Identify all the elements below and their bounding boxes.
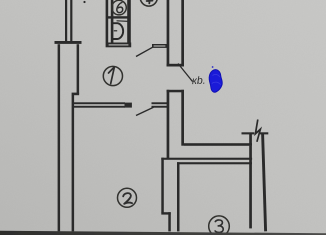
wall: WC room left wall outer line — [106, 0, 109, 43]
wall: top-left thin wall left line — [65, 0, 67, 42]
digit 4 bottom — [147, 0, 153, 3]
wall: horizontal wall to balcony break — [184, 143, 252, 146]
speck — [83, 1, 85, 3]
blue ink blob over apartment number — [209, 66, 222, 92]
wall: upper-right wall right line — [181, 0, 184, 67]
wall: room3 left inner line — [177, 162, 180, 231]
wall: upper-right wall left line — [167, 0, 170, 67]
wall: left exterior wall outer line — [58, 44, 61, 231]
digit 6 — [117, 2, 123, 12]
room label circle 1 — [103, 66, 122, 85]
wall: room3 top wall inner line — [177, 162, 252, 164]
wall: break top line left part — [242, 132, 255, 134]
photo edge dark band bottom — [0, 231, 326, 235]
wall: divider merged end block — [125, 103, 132, 108]
step line under circle 6 — [117, 20, 129, 23]
wall turn-up stub near break — [249, 133, 252, 146]
light core of upper door stub — [154, 45, 166, 46]
wall: room3 left outer line upper — [161, 158, 164, 213]
wall: right exterior wall outer line — [263, 134, 266, 232]
wall: left exterior wall inner line upper — [77, 44, 80, 94]
wall stub right of middle door bottom line — [152, 106, 168, 108]
room label circle 2 — [118, 188, 137, 207]
wall pier cap top-left — [55, 41, 82, 44]
digit 1 — [109, 67, 115, 84]
wall: break top line right part — [260, 132, 268, 134]
room label circle 3 — [209, 216, 230, 237]
toilet bowl — [112, 23, 123, 39]
door leaf middle (room1 to room2) — [136, 107, 154, 115]
wall: WC room left wall inner line — [111, 0, 114, 43]
wall: room1/room2 divider bottom line — [74, 106, 126, 108]
wall: upper-right wall bottom cap — [167, 64, 184, 67]
light core of WC bottom bar — [109, 44, 129, 45]
wall: right pier right line — [181, 90, 184, 146]
wall: left exterior wall inner line lower — [72, 95, 75, 231]
wall: room3 inner right line — [249, 146, 252, 229]
wall: room3 top wall outer line — [161, 158, 252, 160]
door leaf upper (room1 to room4) — [136, 47, 153, 56]
wall: right pier top cap — [167, 90, 184, 93]
wall: top-left thin wall right line — [70, 0, 72, 42]
svg-text:кb.: кb. — [192, 75, 206, 87]
wall stub right of upper door — [152, 44, 167, 48]
wall: WC room bottom bar — [106, 43, 132, 48]
wall: room1/room2 divider top line — [74, 102, 126, 104]
wall jog — [72, 93, 80, 96]
wall jog lower — [161, 212, 170, 214]
wall: WC room divider line — [107, 16, 130, 18]
wall: right pier left line — [167, 90, 170, 160]
wall: WC room right wall — [127, 0, 131, 43]
digit 3 — [215, 220, 223, 232]
room label circle 6 — [112, 0, 127, 15]
pointer line to apartment number — [178, 64, 193, 82]
break symbol zigzag — [255, 120, 260, 142]
digit 2 — [123, 193, 132, 204]
wall: room3 left outer line lower — [168, 212, 171, 231]
room label circle 4 — [140, 0, 157, 6]
toilet tick — [114, 30, 117, 32]
wall stub right of middle door top line — [152, 102, 168, 104]
